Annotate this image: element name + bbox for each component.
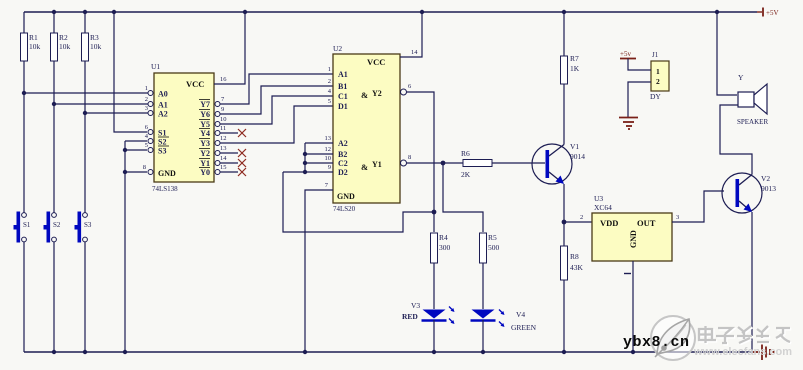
no-connect X on Y1: [238, 159, 246, 167]
resistor R8: [561, 246, 584, 280]
svg-text:Y1: Y1: [200, 159, 210, 168]
wire +5v to J1 pin1: [628, 59, 651, 71]
wire to U3 VDD pin2: [564, 221, 592, 223]
op-amp U3 XC64 body: [592, 194, 672, 261]
svg-text:R3: R3: [90, 33, 99, 42]
U2 gate1 input labels: [338, 70, 348, 111]
U1 left pin circles: [148, 91, 153, 175]
wire Y7 to staircase: [220, 74, 333, 104]
U1 right pin circles: [215, 102, 220, 175]
wire pins 4-5-8 tie column to S3: [124, 141, 126, 352]
svg-text:R6: R6: [461, 149, 470, 158]
svg-text:U3: U3: [594, 194, 603, 203]
wire LED V4 to bottom rail: [482, 320, 484, 352]
svg-text:1: 1: [328, 66, 331, 73]
wire S1 to bottom rail: [23, 242, 25, 352]
svg-text:9014: 9014: [570, 152, 585, 161]
wire Y5 to staircase: [220, 96, 333, 124]
svg-text:U2: U2: [333, 44, 342, 53]
connector J1: [650, 51, 669, 101]
wire Y2 feedback loop to gate2 inputs: [283, 172, 434, 232]
wire R3 column to S2: [84, 61, 86, 213]
wire A0 input: [24, 92, 148, 94]
wire U2 VCC pin14 to top rail: [400, 12, 422, 57]
wire Y2 output to column: [407, 92, 435, 212]
switch S2: [44, 212, 61, 243]
svg-text:74LS138: 74LS138: [152, 185, 178, 193]
svg-text:D2: D2: [338, 168, 348, 177]
speaker Y: [737, 73, 768, 126]
svg-text:S2: S2: [158, 138, 166, 147]
svg-text:S3: S3: [84, 221, 92, 229]
svg-text:Y4: Y4: [200, 129, 210, 138]
svg-text:3: 3: [676, 214, 679, 221]
node V1 emitter / U3 VDD junction: [562, 220, 567, 225]
svg-text:500: 500: [488, 243, 500, 252]
wire U3 OUT to V2 base: [672, 191, 724, 222]
op-amp U1 74LS138 body: [151, 62, 214, 193]
svg-text:12: 12: [325, 146, 332, 153]
wire R3 column upper: [84, 12, 86, 33]
svg-text:V4: V4: [516, 310, 525, 319]
switch S1: [14, 212, 31, 243]
svg-text:S2: S2: [53, 221, 61, 229]
svg-text:Y6: Y6: [200, 110, 210, 119]
wire Y0 stub: [220, 171, 238, 173]
LED V4 GREEN: [471, 310, 537, 333]
U2 left pin numbers: [325, 66, 332, 189]
svg-text:SPEAKER: SPEAKER: [737, 118, 768, 126]
wire U1 pin4 row: [125, 140, 147, 142]
svg-text:R4: R4: [439, 233, 448, 242]
svg-text:9013: 9013: [761, 184, 776, 193]
wire R7 to top rail: [563, 12, 565, 56]
svg-text:&: &: [361, 162, 368, 172]
svg-text:A0: A0: [158, 90, 168, 99]
svg-text:14: 14: [220, 155, 227, 162]
U2 output circle pin8: [401, 160, 407, 166]
svg-text:Y0: Y0: [200, 168, 210, 177]
wire LED V3 to bottom rail: [433, 320, 435, 352]
wire left column R1 net: [23, 12, 25, 33]
svg-text:B1: B1: [338, 82, 347, 91]
transistor V2 9013: [722, 173, 776, 213]
wire U2 pin7 GND to bottom rail: [305, 190, 333, 352]
svg-text:5: 5: [328, 98, 331, 105]
svg-text:J1: J1: [652, 51, 659, 59]
svg-text:GREEN: GREEN: [511, 323, 537, 332]
wire S2 to bottom rail: [84, 242, 86, 352]
svg-text:2K: 2K: [461, 170, 471, 179]
wire Y1 output row: [407, 162, 464, 164]
watermark chinese characters: [700, 327, 791, 344]
node pin8 tie: [123, 170, 127, 174]
wire Y2 column to R4: [433, 212, 435, 232]
op-amp U2 74LS20 body: [333, 44, 400, 213]
svg-text:VCC: VCC: [186, 79, 204, 89]
svg-text:12: 12: [220, 135, 227, 142]
svg-text:300: 300: [439, 243, 451, 252]
svg-text:43K: 43K: [570, 263, 584, 272]
svg-text:C2: C2: [338, 159, 348, 168]
svg-text:VDD: VDD: [600, 218, 618, 228]
svg-text:10k: 10k: [90, 42, 102, 51]
svg-text:1: 1: [656, 67, 660, 76]
wire top +5V rail: [24, 11, 757, 13]
wire Y1 stub: [220, 162, 238, 164]
wire R2 column to S1: [53, 61, 55, 213]
wire V2 collector up to speaker: [720, 105, 752, 175]
wire bottom ground rail: [24, 351, 753, 353]
svg-text:10k: 10k: [29, 42, 41, 51]
watermark leaf logo: [651, 316, 695, 360]
resistor R3: [82, 33, 102, 61]
svg-text:XC64: XC64: [594, 203, 612, 212]
U3 pin 1 number: [624, 273, 631, 275]
svg-text:16: 16: [220, 76, 227, 83]
node bottom rail junctions: [52, 350, 635, 354]
svg-text:9: 9: [328, 164, 331, 171]
svg-text:R7: R7: [570, 54, 579, 63]
svg-text:V2: V2: [761, 174, 770, 183]
wire U1 pin5 row: [125, 149, 147, 151]
node A0 tap: [22, 91, 26, 95]
svg-text:13: 13: [220, 145, 227, 152]
svg-text:www.elecfans.com: www.elecfans.com: [693, 346, 792, 358]
svg-text:1K: 1K: [570, 64, 580, 73]
U1 left pin labels: [158, 90, 168, 156]
svg-text:GND: GND: [337, 192, 355, 201]
svg-text:GND: GND: [158, 169, 176, 178]
svg-text:Y3: Y3: [200, 139, 210, 148]
svg-text:RED: RED: [402, 312, 418, 321]
resistor R5: [480, 233, 500, 263]
wire R5 to LED V4: [482, 263, 484, 309]
wire Y4 stub: [220, 132, 238, 134]
svg-text:11: 11: [220, 125, 226, 132]
svg-text:2: 2: [328, 78, 331, 85]
node A1 tap: [52, 102, 56, 106]
wire R2 column upper: [53, 12, 55, 33]
wire V1 collector up: [563, 84, 565, 145]
wire U3 GND to bottom rail: [632, 261, 634, 352]
svg-text:Y2: Y2: [372, 89, 382, 98]
wire A1 input: [54, 103, 148, 105]
svg-text:Y2: Y2: [200, 149, 210, 158]
wire Y2 stub: [220, 152, 238, 154]
svg-text:&: &: [361, 90, 368, 100]
no-connect X on Y0: [238, 168, 246, 176]
svg-text:14: 14: [411, 49, 418, 56]
svg-text:R5: R5: [488, 233, 497, 242]
svg-text:3: 3: [145, 105, 148, 112]
wire R8 to bottom rail: [563, 280, 565, 352]
wire U1 VCC pin16 to top rail: [214, 12, 245, 84]
svg-text:10k: 10k: [59, 42, 71, 51]
wire speaker top terminal to top rail: [717, 12, 737, 95]
svg-text:R1: R1: [29, 33, 38, 42]
no-connect X on Y2: [238, 149, 246, 157]
wire S1 to bottom rail: [53, 242, 55, 352]
node Y1 junction: [441, 161, 446, 166]
wire +5V to U1 pin6 enable: [114, 12, 147, 132]
svg-text:1: 1: [145, 85, 148, 92]
svg-text:S1: S1: [23, 221, 31, 229]
resistor R7: [561, 54, 580, 84]
wire U2 pin12 row: [305, 153, 333, 155]
svg-text:A2: A2: [338, 139, 348, 148]
wire gate2 input tie column: [304, 143, 306, 172]
svg-text:DY: DY: [650, 92, 661, 101]
svg-text:GND: GND: [629, 230, 638, 248]
svg-text:5: 5: [145, 142, 148, 149]
node top rail junctions: [52, 10, 719, 14]
svg-text:13: 13: [325, 135, 332, 142]
svg-text:Y: Y: [738, 73, 744, 82]
wire V1 emitter down: [563, 184, 565, 246]
transistor V1 9014: [532, 142, 585, 184]
wire Y1 to R5 column: [443, 163, 483, 232]
U1 output overlines: [199, 100, 210, 168]
wire R4 to LED V3: [433, 263, 435, 309]
svg-text:B2: B2: [338, 150, 347, 159]
node Y2 column junction: [432, 210, 437, 215]
svg-text:OUT: OUT: [637, 218, 656, 228]
resistor R6: [461, 149, 492, 179]
svg-text:+5v: +5v: [620, 50, 631, 58]
svg-text:Y7: Y7: [200, 100, 210, 109]
svg-text:2: 2: [656, 77, 660, 86]
svg-text:8: 8: [408, 154, 411, 161]
svg-text:Y5: Y5: [200, 120, 210, 129]
svg-text:V3: V3: [411, 301, 420, 310]
svg-text:U1: U1: [151, 62, 160, 71]
ground symbol bottom right: [753, 344, 774, 360]
wire U2 pin13 row: [305, 142, 333, 144]
wire Y6 to staircase: [220, 86, 333, 114]
switch S3: [75, 212, 92, 243]
wire U2 pin9 row: [283, 171, 333, 173]
svg-text:S1: S1: [158, 129, 166, 138]
svg-text:+5V: +5V: [766, 9, 779, 17]
svg-text:A1: A1: [338, 70, 348, 79]
node pin4/5 tie: [123, 148, 127, 152]
U1 S2 S3 overlines: [158, 136, 169, 138]
node A2 tap: [83, 111, 87, 115]
svg-text:S3: S3: [158, 147, 166, 156]
wire U2 pin10 row: [305, 162, 333, 164]
svg-text:R8: R8: [570, 252, 579, 261]
no-connect X on Y4: [238, 129, 246, 137]
svg-text:VCC: VCC: [367, 57, 385, 67]
svg-text:2: 2: [580, 214, 583, 221]
resistor R1: [21, 33, 41, 61]
U1 right pin numbers: [220, 96, 227, 171]
U1 left pin numbers: [143, 85, 149, 171]
power +5v at J1: [620, 50, 636, 59]
wire R6 to V1 base: [492, 162, 545, 164]
wire J1 pin2 to ground: [628, 82, 651, 117]
resistor R4: [431, 233, 451, 263]
ground symbol at J1: [619, 118, 638, 130]
svg-text:Y1: Y1: [372, 160, 382, 169]
svg-text:C1: C1: [338, 92, 348, 101]
wire V2 emitter to bottom rail: [751, 212, 753, 352]
svg-text:2: 2: [145, 96, 148, 103]
svg-text:A2: A2: [158, 110, 168, 119]
node tie pin10: [303, 161, 307, 165]
svg-text:10: 10: [220, 116, 227, 123]
LED V3 RED: [402, 301, 455, 324]
node tie pin9: [303, 170, 307, 174]
svg-text:ybx8.cn: ybx8.cn: [623, 334, 690, 351]
svg-text:10: 10: [325, 155, 332, 162]
wire U1 pin8 GND row: [125, 171, 147, 173]
U2 gate2 input labels: [338, 139, 348, 177]
U2 output circle pin6: [401, 89, 407, 95]
node tie pin12: [303, 152, 307, 156]
svg-text:A1: A1: [158, 101, 168, 110]
wire A2 input: [85, 112, 148, 114]
svg-text:74LS20: 74LS20: [333, 205, 356, 213]
svg-text:D1: D1: [338, 102, 348, 111]
wire Y3 to staircase: [220, 106, 333, 143]
svg-text:R2: R2: [59, 33, 68, 42]
svg-text:8: 8: [143, 164, 146, 171]
svg-text:9: 9: [221, 106, 224, 113]
U1 right output labels Y7..Y0: [200, 100, 210, 177]
power +5V top right: [757, 8, 779, 18]
svg-text:V1: V1: [570, 142, 579, 151]
resistor R2: [51, 33, 71, 61]
svg-text:15: 15: [220, 164, 227, 171]
